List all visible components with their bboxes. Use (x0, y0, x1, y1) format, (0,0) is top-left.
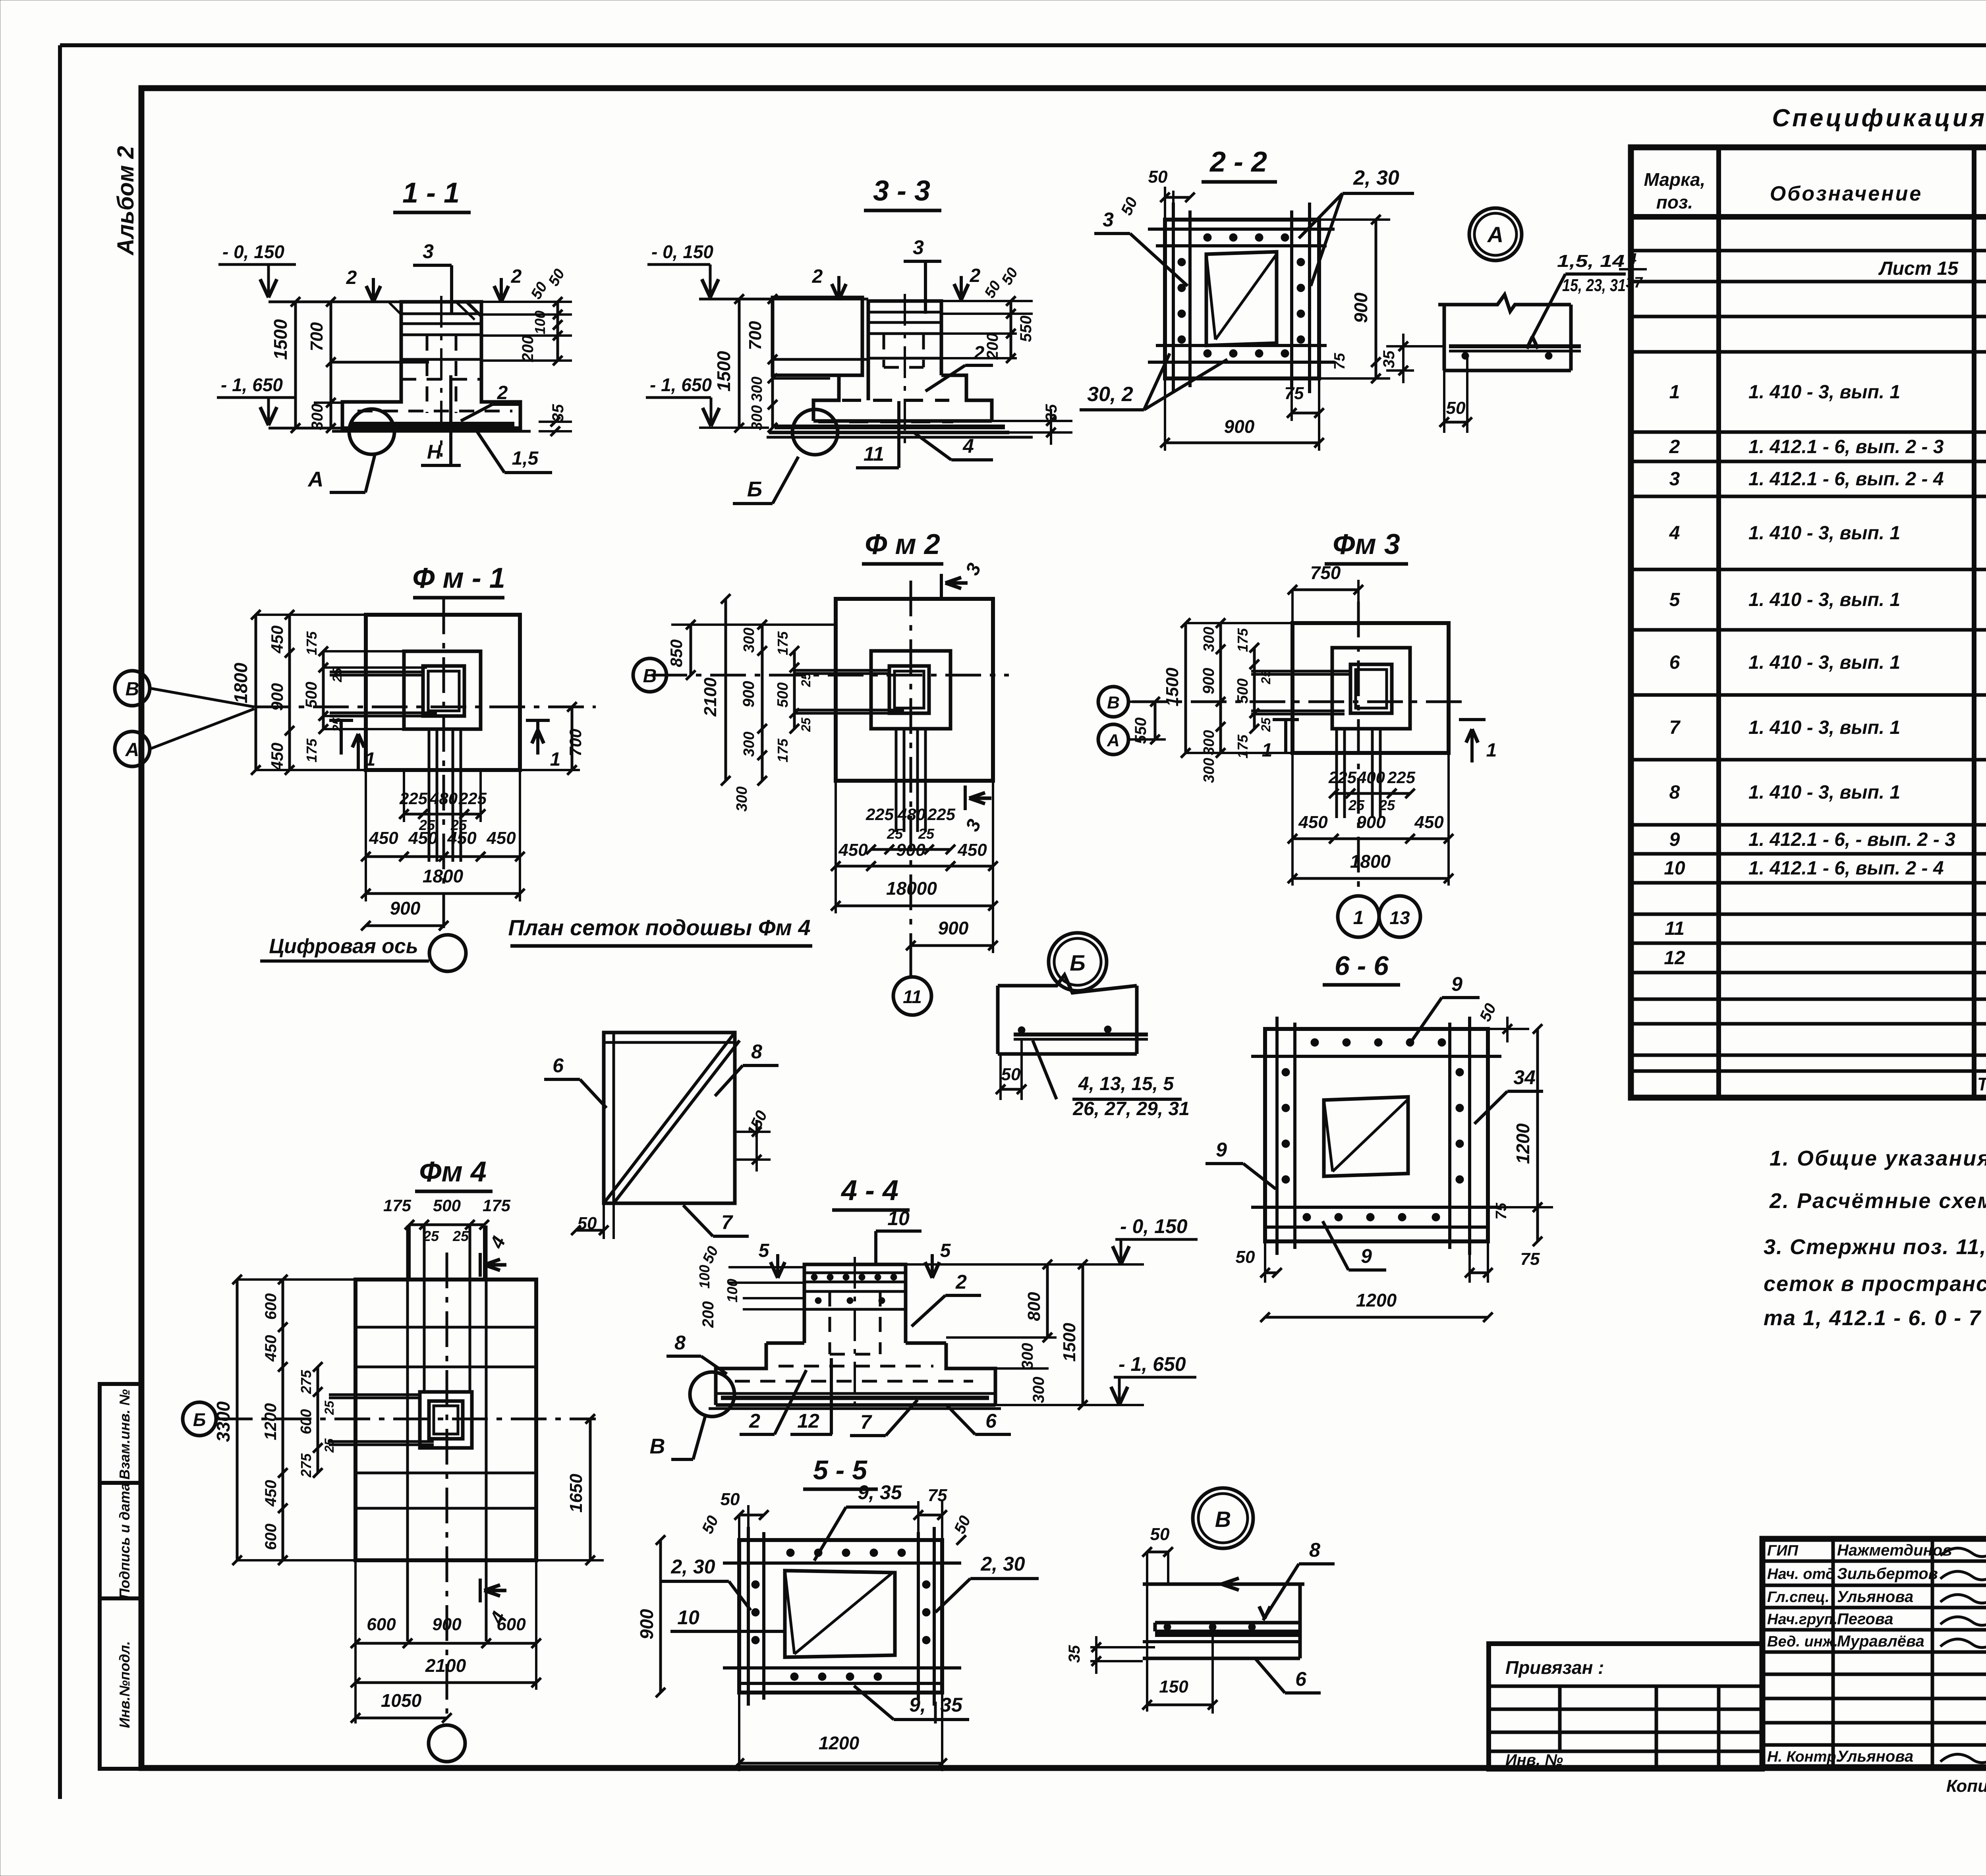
section 1-1 base line (332, 430, 531, 433)
svg-text:100: 100 (724, 1279, 740, 1303)
svg-text:Марка,: Марка, (1644, 169, 1706, 190)
svg-text:Лист 15: Лист 15 (1878, 258, 1959, 279)
detail В mesh line (1155, 1633, 1300, 1637)
svg-text:Инв. №: Инв. № (1505, 1751, 1563, 1769)
svg-text:2: 2 (511, 266, 522, 287)
section 4-4 bottom mesh (721, 1396, 989, 1400)
svg-text:300: 300 (741, 731, 757, 757)
section 2-2 mesh horizontals (1148, 228, 1335, 231)
plan Фм 2 axis bubble В (633, 658, 667, 692)
svg-text:600: 600 (262, 1293, 280, 1320)
plan Фм-1 cap square (404, 651, 481, 729)
svg-text:50: 50 (1148, 167, 1168, 187)
svg-text:2: 2 (497, 382, 508, 403)
svg-text:Фм 3: Фм 3 (1333, 529, 1400, 560)
plan Фм 4 axis bubble Б (183, 1402, 216, 1436)
svg-text:11: 11 (1665, 918, 1685, 939)
svg-text:25: 25 (330, 668, 344, 683)
svg-text:700: 700 (746, 321, 765, 350)
svg-text:35: 35 (940, 1694, 963, 1716)
section 3-3 right dims (941, 300, 1033, 302)
section 2-2 opening (1206, 252, 1277, 345)
section 5-5 dim 1200 bottom (739, 1762, 942, 1765)
plan Фм 3 dim 1800 bottom (1292, 877, 1449, 880)
svg-text:300: 300 (1019, 1343, 1036, 1370)
svg-text:1650: 1650 (566, 1474, 586, 1513)
svg-text:500: 500 (775, 682, 791, 707)
svg-text:Ф м 2: Ф м 2 (865, 529, 940, 560)
svg-text:1: 1 (550, 749, 561, 770)
section 1-1 detail circle А (349, 409, 394, 454)
svg-text:сеток в пространственный к: сеток в пространственный каркас по схеме… (1764, 1272, 1986, 1296)
svg-text:175: 175 (383, 1196, 411, 1215)
svg-text:25: 25 (322, 1400, 336, 1415)
plan Фм 4 left chain 275 600 275 (317, 1367, 319, 1473)
svg-text:300: 300 (1030, 1377, 1047, 1403)
svg-text:900: 900 (740, 681, 757, 708)
svg-text:35: 35 (1066, 1645, 1083, 1663)
plan Фм 3 axis circles 1 13 (1338, 896, 1379, 937)
svg-text:300: 300 (1201, 627, 1217, 652)
section 4-4 base line (709, 1407, 1001, 1410)
svg-text:В: В (126, 679, 139, 700)
plan Фм-1 dim 900 bottom (366, 924, 444, 927)
svg-text:6: 6 (1295, 1668, 1307, 1690)
svg-text:4 - 4: 4 - 4 (840, 1175, 898, 1206)
svg-text:1: 1 (1353, 907, 1364, 928)
plan Фм-1 section mark 1 left (329, 719, 353, 722)
svg-text:900: 900 (390, 898, 421, 919)
svg-text:6: 6 (553, 1054, 564, 1077)
svg-text:1. 412.1 - 6, вып. 2 - 4: 1. 412.1 - 6, вып. 2 - 4 (1748, 469, 1944, 490)
plan Фм 2 left dims 850 (690, 625, 692, 675)
plan setok diagonal (604, 1033, 735, 1203)
plan Фм 4 vertical axis (446, 1253, 448, 1714)
svg-text:450: 450 (447, 828, 477, 848)
svg-text:Альбом 2: Альбом 2 (113, 146, 139, 256)
svg-text:9: 9 (1669, 829, 1680, 850)
svg-text:6: 6 (1669, 652, 1680, 673)
section 3-3 detail circle Б (792, 409, 838, 455)
svg-text:550: 550 (1017, 316, 1035, 342)
svg-text:225: 225 (1387, 768, 1416, 787)
detail В top line (1143, 1583, 1304, 1586)
svg-text:1: 1 (1486, 740, 1497, 761)
svg-text:100: 100 (532, 311, 548, 334)
svg-text:9, 35: 9, 35 (858, 1481, 902, 1504)
svg-text:6: 6 (985, 1410, 997, 1432)
plan Фм 2 dim 18000 bottom (836, 905, 993, 907)
svg-text:1. 410 - 3, вып. 1: 1. 410 - 3, вып. 1 (1748, 717, 1900, 738)
svg-text:450: 450 (268, 743, 286, 771)
svg-text:450: 450 (262, 1335, 280, 1362)
section 6-6 mesh dots (1311, 1038, 1319, 1046)
plan Фм 3 dim 750 top (1292, 589, 1358, 591)
section 6-6 outer square (1265, 1029, 1488, 1241)
svg-text:Ульянова: Ульянова (1837, 1588, 1913, 1606)
section 5-5 mesh dots (786, 1549, 794, 1557)
plan Фм 2 dim 300 900 300 chain (761, 625, 764, 781)
svg-text:3. Стержни поз. 11, 12 сл: 3. Стержни поз. 11, 12 служат для сборки… (1764, 1235, 1986, 1259)
svg-text:75: 75 (1331, 353, 1348, 370)
svg-text:11: 11 (903, 986, 922, 1007)
section 6-6 opening (1324, 1097, 1408, 1176)
section 2-2 outer square (1165, 220, 1319, 378)
svg-text:План сеток подошвы Фм 4: План сеток подошвы Фм 4 (508, 915, 810, 940)
svg-text:175: 175 (303, 631, 320, 655)
svg-text:- 0, 150: - 0, 150 (1120, 1215, 1188, 1237)
plan Фм 3 rebar lines (1335, 729, 1338, 818)
svg-text:2100: 2100 (425, 1655, 466, 1676)
svg-text:50: 50 (1446, 398, 1466, 418)
svg-text:В: В (643, 666, 657, 687)
svg-text:480: 480 (429, 789, 458, 808)
plan Фм 3 axis bubble А (1098, 724, 1128, 755)
plan Фм-1 dim 1800 left (255, 615, 257, 770)
svg-text:3: 3 (913, 236, 924, 259)
svg-text:1. 412.1 - 6, - вып. 2 - 3: 1. 412.1 - 6, - вып. 2 - 3 (1748, 829, 1955, 850)
svg-text:900: 900 (896, 840, 925, 860)
svg-text:ГИП: ГИП (1767, 1542, 1799, 1559)
svg-text:225: 225 (927, 805, 956, 824)
svg-text:75: 75 (1285, 384, 1304, 403)
svg-text:26, 27, 29, 31: 26, 27, 29, 31 (1072, 1098, 1190, 1119)
svg-text:1. 412.1 - 6, вып. 2 - 4: 1. 412.1 - 6, вып. 2 - 4 (1748, 858, 1944, 879)
svg-text:Б: Б (193, 1409, 206, 1430)
svg-text:В: В (1215, 1507, 1231, 1532)
svg-text:200: 200 (519, 336, 537, 363)
section 1-1 bottom mesh (350, 422, 514, 427)
svg-text:4: 4 (1628, 251, 1636, 267)
plan Фм 4 section mark 4 bottom (479, 1579, 482, 1602)
svg-text:Ульянова: Ульянова (1837, 1748, 1913, 1765)
svg-text:1. 410 - 3, вып. 1: 1. 410 - 3, вып. 1 (1748, 782, 1900, 803)
plan Фм-1 axis bubble В (115, 671, 150, 706)
svg-text:25: 25 (1348, 797, 1365, 813)
plan Фм 3 column square (1350, 664, 1392, 713)
title block outline (1762, 1539, 1986, 1767)
plan Фм 4 top chain 175 500 175 (410, 1224, 484, 1226)
svg-text:2: 2 (346, 267, 357, 288)
svg-text:35: 35 (1380, 350, 1398, 368)
section 2-2 mesh verticals (1172, 203, 1175, 393)
svg-text:700: 700 (307, 322, 326, 351)
section 3-3 dim 1500 left (738, 299, 741, 428)
svg-text:450: 450 (1298, 813, 1328, 832)
svg-text:13: 13 (1389, 907, 1410, 928)
svg-text:6 - 6: 6 - 6 (1335, 951, 1389, 981)
plan Фм 4 column square (429, 1401, 463, 1439)
sheet outer edge line top (60, 43, 1986, 47)
svg-text:Вед. инж.: Вед. инж. (1767, 1633, 1838, 1650)
svg-text:1200: 1200 (1513, 1123, 1533, 1164)
plan Фм 3 dim 1500 left (1184, 623, 1187, 753)
plan Фм 2 cap square (871, 651, 950, 729)
plan Фм 2 dim 175 500 chain (793, 651, 796, 729)
section 2-2 mesh dots (1204, 234, 1211, 241)
section 6-6 dim 1200 bottom (1265, 1316, 1488, 1319)
svg-text:2100: 2100 (701, 677, 720, 717)
svg-text:500: 500 (303, 682, 320, 708)
plan Фм 3 vertical axis (1357, 602, 1360, 894)
svg-text:25: 25 (1259, 717, 1273, 732)
plan Фм 3 outer rect (1292, 623, 1449, 753)
plan Фм-1 vertical axis (442, 598, 445, 933)
svg-text:75: 75 (1493, 1202, 1510, 1220)
svg-text:- 1, 650: - 1, 650 (221, 374, 283, 395)
plan Фм 4 dim 3300 left (236, 1280, 239, 1560)
svg-text:10: 10 (677, 1606, 699, 1629)
svg-text:Нажметдинов: Нажметдинов (1837, 1542, 1952, 1559)
svg-text:5 - 5: 5 - 5 (813, 1455, 867, 1485)
svg-text:600: 600 (298, 1409, 315, 1434)
sheet outer edge line left (58, 45, 62, 1799)
svg-text:900: 900 (268, 683, 286, 711)
section 2-2 opening fold (1206, 254, 1215, 340)
svg-text:Нач. отд: Нач. отд (1767, 1566, 1835, 1583)
svg-text:1. 410 - 3, вып. 1: 1. 410 - 3, вып. 1 (1748, 652, 1900, 673)
svg-text:Взам.инв. №: Взам.инв. № (116, 1389, 133, 1480)
section 4-4 column outline (716, 1343, 766, 1393)
svg-text:175: 175 (775, 738, 791, 762)
svg-text:900: 900 (1224, 416, 1255, 437)
svg-text:Фм 4: Фм 4 (419, 1156, 487, 1188)
svg-text:5: 5 (1669, 589, 1681, 610)
section 1-1 column outline (342, 302, 520, 428)
section 4-4 right dims 800 1500 300 300 (906, 1263, 1057, 1266)
plan Фм-1 dim 700 right (571, 707, 574, 770)
svg-text:Б: Б (747, 477, 762, 501)
section 6-6 opening fold (1324, 1100, 1333, 1172)
svg-text:Н. Контр.: Н. Контр. (1767, 1749, 1840, 1765)
svg-text:3: 3 (1103, 208, 1114, 231)
svg-text:4: 4 (1669, 523, 1680, 544)
plan Фм-1 bottom chain 450x4 (366, 855, 520, 858)
plan setok square (604, 1033, 735, 1203)
plan Фм 2 dim 2100 (724, 599, 727, 781)
plan Фм-1 outer square (366, 615, 520, 770)
margin stamp strip (100, 1384, 141, 1769)
svg-text:- 0, 150: - 0, 150 (651, 241, 713, 262)
svg-text:А: А (125, 739, 139, 760)
svg-text:1200: 1200 (261, 1403, 280, 1440)
plan Фм 2 rebar lines (895, 729, 898, 832)
svg-text:1800: 1800 (423, 866, 464, 886)
svg-text:Инв.№подл.: Инв.№подл. (116, 1641, 133, 1728)
svg-text:Привязан :: Привязан : (1505, 1657, 1604, 1678)
section 5-5 dim 900 left (659, 1540, 662, 1693)
plan Фм 4 cap tie double lines (329, 1393, 420, 1396)
svg-text:100: 100 (696, 1265, 713, 1289)
svg-text:2: 2 (970, 265, 981, 286)
section 4-4 rebar dashed (829, 1291, 831, 1354)
svg-text:2, 30: 2, 30 (980, 1553, 1025, 1575)
plan Фм 4 bottom chain 600 900 600 (355, 1642, 536, 1645)
svg-text:25: 25 (887, 826, 903, 842)
plan Фм 2 axis circle 11 (893, 977, 931, 1015)
svg-text:2: 2 (974, 343, 985, 364)
svg-text:150: 150 (1159, 1677, 1188, 1697)
svg-text:10: 10 (1664, 858, 1685, 879)
svg-text:275: 275 (298, 1453, 314, 1478)
svg-text:1 - 1: 1 - 1 (402, 177, 460, 209)
svg-text:Б: Б (1070, 950, 1086, 975)
svg-text:Цифровая ось: Цифровая ось (269, 935, 418, 958)
svg-text:300: 300 (309, 404, 326, 430)
svg-text:11: 11 (864, 443, 884, 465)
plan Фм 2 column square (889, 666, 929, 713)
section 4-4 detail circle В (690, 1372, 734, 1417)
svg-text:9: 9 (1361, 1245, 1372, 1267)
svg-text:1: 1 (365, 749, 376, 770)
svg-text:400: 400 (1357, 768, 1385, 787)
svg-text:1,5, 14: 1,5, 14 (1557, 251, 1625, 271)
svg-text:200: 200 (699, 1301, 717, 1328)
plan Фм 2 outer rect (836, 599, 993, 781)
svg-text:50: 50 (1150, 1525, 1170, 1544)
svg-text:1: 1 (1669, 382, 1680, 403)
svg-text:300: 300 (1201, 730, 1217, 755)
svg-text:8: 8 (1669, 782, 1680, 803)
section 6-6 mesh verticals (1275, 1017, 1279, 1255)
plan Фм 3 dim 175 500 chain (1253, 648, 1256, 729)
svg-text:1. 412.1 - 6, вып. 2 - 3: 1. 412.1 - 6, вып. 2 - 3 (1748, 436, 1944, 457)
plan Фм-1 column square (423, 666, 464, 716)
plan Фм 4 horizontal axis Б (217, 1418, 596, 1421)
svg-text:5: 5 (940, 1240, 951, 1261)
svg-text:30, 2: 30, 2 (1087, 383, 1133, 406)
svg-text:15, 23, 31: 15, 23, 31 (1562, 276, 1626, 295)
svg-text:175: 175 (1234, 734, 1251, 759)
section 1-1 right dims 50 50 100 200 (481, 301, 572, 303)
svg-text:1500: 1500 (713, 351, 734, 392)
svg-text:2 - 2: 2 - 2 (1209, 146, 1267, 178)
svg-text:7: 7 (721, 1211, 733, 1233)
svg-text:А: А (1487, 222, 1503, 247)
svg-text:300: 300 (734, 786, 750, 811)
svg-text:18000: 18000 (886, 878, 937, 899)
detail В bubble (1193, 1488, 1253, 1548)
svg-text:2: 2 (1669, 436, 1680, 457)
plan Фм 2 dim 900 bottom (911, 944, 993, 947)
section 3-3 column axis (904, 294, 906, 449)
svg-text:25: 25 (918, 826, 935, 842)
svg-text:2: 2 (812, 266, 823, 287)
svg-text:75: 75 (1520, 1249, 1540, 1269)
svg-text:480: 480 (897, 805, 925, 824)
plan Фм-1 dim 175 500 chain (322, 651, 325, 729)
plan Фм 3 dim 900 300 300 (1219, 623, 1222, 753)
svg-text:1500: 1500 (1060, 1323, 1079, 1362)
svg-text:850: 850 (667, 639, 686, 667)
section 1-1 column axis (440, 296, 442, 457)
svg-text:Копировал: Сидорова: Копировал: Сидорова (1946, 1776, 1986, 1796)
section 1-1 plate hatch (457, 303, 473, 318)
svg-text:50: 50 (1001, 1065, 1021, 1084)
svg-text:В: В (650, 1434, 665, 1458)
svg-text:2, 30: 2, 30 (670, 1556, 715, 1578)
svg-text:А: А (307, 467, 324, 491)
section 5-5 opening fold (785, 1571, 794, 1654)
svg-text:12: 12 (1664, 948, 1685, 969)
section 2-2 dim 900 bottom (1165, 442, 1319, 444)
svg-text:450: 450 (486, 828, 516, 848)
svg-text:1500: 1500 (270, 319, 291, 360)
svg-text:900: 900 (1350, 292, 1371, 323)
svg-text:25: 25 (1259, 670, 1273, 685)
svg-text:600: 600 (367, 1615, 396, 1634)
svg-text:1. 410 - 3, вып. 1: 1. 410 - 3, вып. 1 (1748, 589, 1900, 610)
svg-text:9,: 9, (909, 1694, 926, 1716)
detail Б bubble (1049, 933, 1107, 991)
svg-text:450: 450 (262, 1480, 280, 1507)
svg-text:- 1, 650: - 1, 650 (650, 374, 712, 395)
detail Б mesh (1014, 1033, 1148, 1036)
plan Фм 4 dim 2100 (355, 1681, 536, 1684)
svg-text:9: 9 (1451, 973, 1462, 995)
svg-text:5: 5 (759, 1240, 770, 1261)
svg-text:Нач.груп.: Нач.груп. (1767, 1611, 1837, 1628)
svg-text:поз.: поз. (1656, 192, 1693, 212)
plan Фм 2 bottom chain 450 900 450 (836, 865, 993, 868)
plan Фм-1 horizontal axis (254, 706, 596, 708)
detail Б slab (998, 975, 1137, 993)
svg-text:175: 175 (483, 1196, 511, 1215)
svg-text:900: 900 (432, 1615, 462, 1634)
plan Фм-1 axis bubble А (115, 731, 150, 766)
plan Фм 4 internal mesh lines (355, 1326, 536, 1329)
detail В mesh dots (1164, 1623, 1171, 1631)
plan Фм 4 dim 1050 (355, 1717, 447, 1720)
section 4-4 left dims 50 100 100 200 (728, 1266, 804, 1268)
svg-text:9: 9 (1216, 1139, 1227, 1161)
svg-text:7: 7 (860, 1411, 872, 1433)
Привязан box (1489, 1644, 1762, 1769)
section 1-1 top plates (401, 313, 481, 315)
svg-text:1050: 1050 (381, 1690, 422, 1711)
section 6-6 mesh horizontals (1251, 1055, 1501, 1058)
svg-text:300: 300 (749, 376, 765, 401)
detail A mesh (1449, 344, 1581, 348)
section 5-5 mesh horizontals (723, 1561, 961, 1565)
svg-text:200: 200 (984, 333, 1001, 360)
plan Фм 2 bottom chain 225 480 225 (871, 848, 950, 851)
section 3-3 top plates (868, 311, 941, 314)
svg-text:500: 500 (433, 1196, 461, 1215)
section 2-2 dim 900 right (1375, 220, 1377, 378)
svg-text:2: 2 (955, 1271, 967, 1293)
section 6-6 dim 1200 right (1536, 1029, 1539, 1241)
svg-text:25: 25 (799, 717, 813, 732)
svg-text:50: 50 (1236, 1247, 1255, 1267)
section 3-3 rebar dashed (883, 334, 885, 367)
plan Фм 3 horizontal axis (1132, 701, 1470, 703)
svg-text:12: 12 (797, 1410, 819, 1432)
svg-text:Гл.спец.: Гл.спец. (1767, 1589, 1830, 1606)
svg-text:- 1, 650: - 1, 650 (1119, 1353, 1186, 1375)
svg-text:8: 8 (1309, 1539, 1320, 1561)
plan Фм 3 bottom chain 225 400 225 (1334, 792, 1410, 795)
section 4-4 top plates (804, 1272, 906, 1274)
plan Фм 4 left chain 600 450 1200 450 600 (282, 1280, 284, 1560)
plan Фм-1 dim 450 900 450 (288, 615, 291, 770)
svg-text:В: В (1107, 693, 1120, 712)
svg-text:2: 2 (749, 1410, 760, 1432)
svg-text:175: 175 (303, 738, 320, 762)
section 1-1 dim 1500 (294, 302, 297, 428)
plan Фм-1 dim 1800 bottom (366, 892, 520, 895)
svg-text:1: 1 (1262, 740, 1273, 761)
